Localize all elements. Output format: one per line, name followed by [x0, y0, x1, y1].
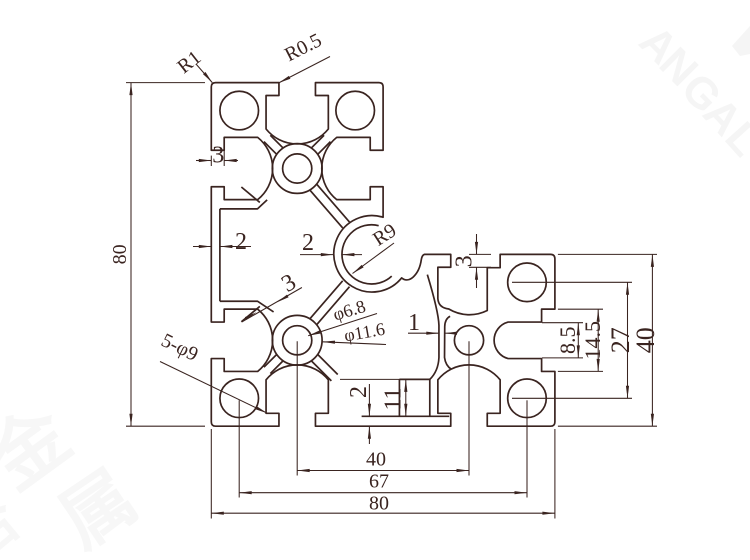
dimension 11 channel	[340, 379, 430, 416]
junction box	[399, 379, 429, 416]
bottom skin line	[362, 415, 450, 417]
dimension 67 bottom	[239, 400, 527, 497]
svg-text:67: 67	[369, 471, 389, 493]
leader R0.5	[279, 29, 331, 83]
svg-text:14.5: 14.5	[580, 321, 605, 360]
svg-text:2: 2	[346, 386, 372, 398]
dimension 2 left wall	[193, 229, 251, 255]
junction box left	[398, 379, 400, 416]
dimension 3 left slot lip	[196, 138, 238, 169]
dimension 14.5 right	[558, 309, 605, 371]
leader phi6.8	[308, 296, 377, 336]
corner hole phi9 bottom-left	[220, 379, 259, 418]
svg-text:80: 80	[369, 493, 389, 515]
web BL cell lower-left	[264, 355, 283, 374]
svg-text:1: 1	[408, 310, 420, 336]
svg-text:80: 80	[109, 244, 131, 264]
corner hole phi9 right-lower	[508, 379, 547, 418]
web TL cell upper-left	[264, 135, 283, 154]
dimension 80 left vertical	[109, 83, 205, 427]
watermark bottom-left	[0, 392, 151, 560]
web TL cell upper-right	[312, 135, 331, 154]
corner hole phi9 right-upper	[508, 263, 547, 302]
slot lip chamfer upper	[241, 187, 259, 202]
dimension 2 bottom skin	[346, 384, 372, 444]
svg-text:2: 2	[235, 229, 247, 255]
center hole BL (phi 6.8)	[283, 326, 312, 355]
svg-text:2: 2	[302, 230, 314, 256]
leader R9	[353, 219, 401, 273]
dimension 8.5 right	[542, 323, 583, 358]
web BL cell to tube	[310, 281, 349, 325]
leader R1	[173, 46, 212, 82]
slot lip chamfer lower	[241, 306, 259, 321]
dimension 2 tube wall	[300, 230, 362, 256]
web BL cell lower-right	[312, 355, 338, 381]
center hole BR (phi 6.8)	[454, 326, 483, 355]
svg-text:3: 3	[452, 255, 478, 267]
chamber bottom wall	[220, 301, 274, 312]
web TL cell to tube	[310, 184, 349, 228]
svg-text:11: 11	[381, 387, 407, 410]
leader phi11.6	[323, 319, 387, 346]
leader 5-phi9	[158, 329, 268, 413]
svg-text:40: 40	[631, 327, 660, 353]
dimension 3 diagonal	[242, 269, 302, 322]
dimension 1 web	[408, 310, 457, 336]
tube inner wall arc	[342, 225, 392, 284]
corner hole phi9 top-left	[220, 91, 259, 130]
svg-text:8.5: 8.5	[555, 327, 580, 355]
svg-text:3: 3	[212, 143, 224, 169]
boss circle TL cell (phi 11.6)	[272, 144, 322, 194]
dimension 40 right	[558, 254, 660, 426]
center hole TL (phi 6.8)	[283, 154, 312, 183]
corner hole phi9 top-right	[336, 91, 375, 130]
boss circle BL cell (phi 11.6)	[272, 315, 322, 365]
dimension 3 notch slot	[452, 234, 492, 288]
dimension 40 bottom	[297, 341, 469, 475]
chamber top wall	[220, 200, 267, 209]
watermark top-right	[630, 16, 750, 165]
profile outer contour	[211, 83, 555, 427]
slit left wall	[427, 275, 439, 380]
dimension 27 right	[512, 282, 635, 398]
chamber inner wall	[219, 209, 221, 301]
dimension 80 bottom	[211, 429, 555, 519]
svg-text:40: 40	[366, 449, 386, 471]
slit right wall / 1mm web	[445, 316, 452, 369]
